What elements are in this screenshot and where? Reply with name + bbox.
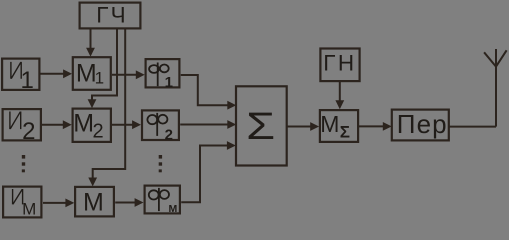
wire ГЧ bus to М with arrow [88, 29, 125, 186]
wire М1 to φ1 with arrow [112, 70, 145, 79]
block φ2 (phase shifter 2) [142, 110, 179, 143]
svg-text:ГЧ: ГЧ [96, 3, 128, 28]
wire Σ to МΣ with arrow [287, 122, 319, 131]
ellipsis dots И column [22, 155, 25, 172]
svg-text:Пер: Пер [397, 109, 448, 139]
block Σ (summator) [236, 86, 287, 165]
block φ1 (phase shifter 1) [146, 59, 180, 91]
block ИM (source M) [3, 187, 41, 219]
block ГН (reference generator) [320, 49, 359, 82]
wire М to φM with arrow [115, 198, 143, 207]
svg-text:Σ: Σ [246, 106, 275, 148]
wire И2 to М2 with arrow [42, 120, 72, 129]
svg-text:М: М [83, 189, 104, 217]
block МΣ (output mixer) [320, 110, 358, 142]
block М1 (modulator 1) [73, 57, 111, 90]
block φM (phase shifter M) [145, 186, 180, 215]
svg-text:2: 2 [22, 118, 35, 145]
block ГЧ (frequency generator) [80, 3, 141, 29]
svg-text:М: М [73, 110, 94, 138]
svg-text:1: 1 [165, 74, 173, 91]
svg-text:М: М [169, 203, 178, 215]
svg-text:М: М [320, 111, 339, 137]
block М (modulator M) [75, 187, 114, 217]
wire МΣ to Пер with arrow [359, 122, 392, 131]
block М2 (modulator 2) [73, 109, 111, 143]
block И2 (source 2) [3, 109, 41, 145]
svg-text:ГН: ГН [323, 50, 356, 75]
svg-text:М: М [22, 200, 36, 219]
wire М2 to φ2 with arrow [112, 120, 141, 129]
svg-text:Σ: Σ [340, 123, 350, 142]
antenna [484, 49, 507, 127]
wire Пер to antenna [449, 126, 496, 128]
block И1 (source 1) [2, 59, 39, 95]
svg-text:2: 2 [165, 127, 173, 144]
wire И1 to М1 with arrow [41, 69, 73, 78]
wire ГН to МΣ with arrow [335, 82, 344, 110]
svg-text:2: 2 [93, 120, 104, 142]
block Пер (transmitter) [392, 109, 449, 140]
svg-text:1: 1 [21, 67, 34, 94]
wire φ2 to Σ with arrow [180, 120, 236, 129]
wire ГЧ bus to М2 with arrow [88, 29, 117, 108]
wire φM to Σ with arrow [181, 141, 236, 202]
wire φ1 to Σ with arrow [181, 75, 236, 110]
wire ИM to М with arrow [43, 199, 74, 208]
ellipsis dots φ column [159, 155, 162, 172]
wire ГЧ to М1 with arrow [86, 29, 95, 57]
svg-text:1: 1 [95, 69, 104, 88]
